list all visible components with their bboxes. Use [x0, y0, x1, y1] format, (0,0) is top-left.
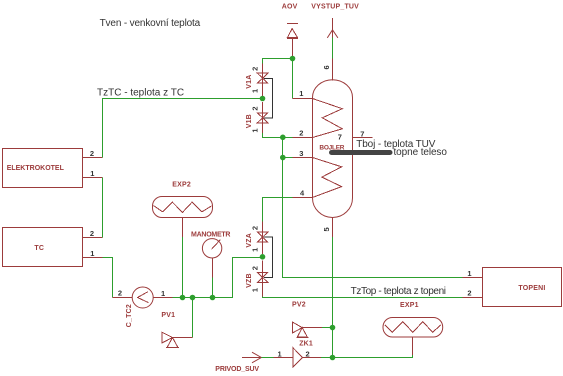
air vent AOV	[282, 3, 299, 58]
junction dot boiler pin2	[280, 135, 286, 141]
arrow PRIVOD_SUV	[215, 352, 261, 373]
wire PRIVOD_SUV net	[261, 357, 273, 359]
pin 2 stub ELEKTROKOTEL	[83, 149, 103, 158]
junction dot EXP2 stem	[180, 295, 186, 301]
svg-text:2: 2	[306, 350, 310, 359]
svg-text:2: 2	[299, 129, 303, 138]
pin 2 stub ZK1	[303, 350, 322, 359]
pin 2 stub TC	[83, 229, 103, 238]
safety valve PV1	[161, 312, 178, 348]
box TOPENI	[483, 268, 562, 307]
wire long vertical to TOPENI pin1	[283, 158, 463, 278]
svg-text:Tven - venkovní teplota: Tven - venkovní teplota	[100, 18, 201, 29]
pin 4 stub boiler	[293, 188, 313, 197]
valve VZB	[246, 260, 268, 296]
svg-text:2: 2	[90, 149, 94, 158]
junction dot MANOMETR stem	[210, 295, 216, 301]
svg-text:VZB: VZB	[246, 273, 253, 288]
coil lower boiler	[313, 158, 342, 198]
svg-text:TzTop - teplota z topeni: TzTop - teplota z topeni	[351, 286, 446, 297]
wire net TzTop VZB pin1 to TOPENI pin2	[263, 297, 463, 298]
svg-text:topne teleso: topne teleso	[394, 147, 448, 158]
wire PV1 drop	[173, 298, 193, 338]
box ELEKTROKOTEL	[3, 149, 83, 188]
wire junction pin2 to pin3	[282, 138, 284, 158]
wire V1B pin1 to boiler pin2	[263, 133, 293, 138]
valve V1B	[246, 102, 268, 133]
svg-text:1: 1	[250, 89, 259, 93]
svg-text:ZK1: ZK1	[299, 340, 313, 347]
svg-text:7: 7	[338, 132, 342, 141]
coupling bracket VZA-VZB	[264, 237, 272, 277]
pin 2 stub TOPENI	[463, 288, 483, 297]
pin 1 stub ELEKTROKOTEL	[83, 169, 103, 178]
svg-text:VYSTUP_TUV: VYSTUP_TUV	[311, 3, 359, 10]
svg-text:TzTC - teplota z TC: TzTC - teplota z TC	[97, 87, 184, 98]
junction dot PV1 drop	[190, 295, 196, 301]
pin 6 stub boiler	[322, 59, 333, 81]
box TC	[3, 228, 83, 267]
wire VZA pin2 up to boiler pin4	[263, 198, 293, 222]
svg-text:7: 7	[360, 130, 364, 139]
pin 1 stub TC	[83, 249, 103, 258]
pin 1 stub TOPENI	[463, 269, 483, 278]
svg-text:2: 2	[250, 67, 259, 71]
svg-text:TOPENI: TOPENI	[518, 285, 545, 292]
wire main run pump to VZ valves	[173, 258, 263, 298]
expansion vessel EXP2	[153, 181, 213, 217]
wire EXP2 stem	[182, 218, 184, 298]
pin 7 stub boiler right	[353, 130, 373, 139]
svg-text:1: 1	[90, 169, 94, 178]
boiler BOJLER vessel	[313, 80, 353, 218]
svg-text:ELEKTROKOTEL: ELEKTROKOTEL	[7, 165, 65, 172]
svg-text:EXP2: EXP2	[172, 181, 191, 188]
coil upper boiler	[313, 99, 343, 138]
arrow VYSTUP_TUV	[311, 3, 359, 38]
svg-text:1: 1	[161, 289, 165, 298]
svg-text:1: 1	[278, 350, 282, 359]
pin 1 stub ZK1	[273, 350, 293, 359]
wire boiler pin3 stub join	[283, 157, 293, 159]
svg-text:PV1: PV1	[161, 312, 175, 319]
pin 5 stub boiler	[322, 218, 333, 238]
wire EXP1 stem	[333, 338, 413, 358]
svg-text:2: 2	[90, 229, 94, 238]
svg-text:1: 1	[467, 269, 471, 278]
svg-text:2: 2	[467, 288, 471, 297]
svg-text:5: 5	[322, 227, 331, 231]
svg-text:2: 2	[118, 289, 122, 298]
svg-text:TC: TC	[34, 245, 44, 252]
junction dot AOV	[290, 56, 296, 62]
svg-text:V1B: V1B	[246, 114, 253, 128]
wire PV2 to net	[302, 327, 322, 329]
wire ZK1 pin2 to junction	[321, 357, 333, 359]
svg-text:2: 2	[250, 266, 259, 270]
heating element bar topne teleso	[332, 150, 391, 155]
expansion vessel EXP1	[383, 302, 443, 337]
svg-text:C_TC2: C_TC2	[126, 304, 133, 327]
junction dot PV2	[330, 325, 336, 331]
pin 3 stub boiler	[293, 149, 313, 158]
pin 1 stub boiler	[293, 89, 313, 99]
svg-text:2: 2	[250, 106, 259, 110]
junction dot boiler pin3	[280, 155, 286, 161]
safety valve PV2	[292, 302, 308, 338]
wire VYSTUP_TUV net	[332, 38, 334, 59]
svg-text:3: 3	[299, 149, 303, 158]
pin 2 stub pump	[113, 289, 133, 298]
wire TC pin1 to pump	[103, 258, 113, 298]
pin 1 stub pump	[153, 289, 172, 298]
svg-text:PV2: PV2	[292, 302, 306, 309]
svg-text:PRIVOD_SUV: PRIVOD_SUV	[215, 366, 259, 373]
valve VZA	[246, 222, 268, 255]
svg-text:1: 1	[250, 248, 259, 252]
svg-text:1: 1	[250, 288, 259, 292]
svg-text:2: 2	[250, 226, 259, 230]
wire MANOMETR stem	[212, 258, 214, 298]
svg-text:1: 1	[299, 89, 303, 98]
svg-text:EXP1: EXP1	[400, 302, 419, 309]
gauge MANOMETR	[191, 232, 230, 258]
wire ELEKTROKOTEL pin1 to TC pin2	[102, 178, 104, 238]
wire net TzTC	[103, 99, 263, 158]
junction dot VZ middle	[260, 254, 266, 260]
coupling bracket V1A-V1B	[264, 79, 273, 118]
junction dot ZK1 EXP1	[330, 355, 336, 361]
pump C_TC2	[126, 287, 153, 327]
wire boiler pin5 down	[332, 237, 334, 358]
valve V1A	[246, 63, 268, 96]
svg-text:V1A: V1A	[246, 74, 253, 88]
wire AOV to V1A top	[263, 59, 293, 64]
svg-text:6: 6	[322, 65, 331, 69]
check valve ZK1	[293, 340, 313, 367]
svg-text:1: 1	[90, 249, 94, 258]
svg-text:AOV: AOV	[282, 3, 298, 10]
svg-text:MANOMETR: MANOMETR	[191, 232, 230, 239]
junction dot V1 middle	[260, 96, 266, 102]
pin 2 stub boiler	[293, 129, 313, 138]
svg-text:1: 1	[250, 128, 259, 132]
wire AOV junction to boiler pin1	[292, 59, 294, 99]
svg-text:VZA: VZA	[246, 233, 253, 248]
